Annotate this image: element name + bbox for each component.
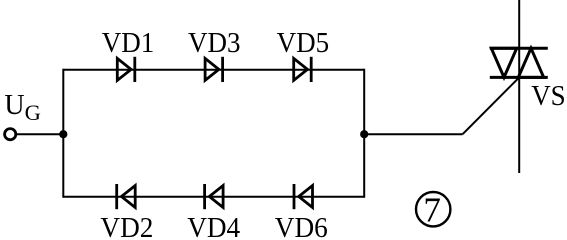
- diode VD3: [205, 57, 223, 82]
- triac VS: [490, 0, 548, 173]
- wire gate diagonal: [463, 77, 520, 134]
- diode VD5: [294, 57, 312, 82]
- terminal UG input: [5, 129, 16, 140]
- wire gate horizontal: [364, 133, 462, 135]
- svg-text:VD1: VD1: [102, 28, 155, 59]
- svg-text:VD4: VD4: [187, 213, 240, 240]
- diode VD2: [117, 184, 136, 209]
- svg-text:7: 7: [423, 191, 441, 230]
- diode VD6: [294, 184, 313, 209]
- svg-text:VD2: VD2: [100, 213, 153, 240]
- svg-text:VD6: VD6: [275, 213, 328, 240]
- wire top bus: [63, 69, 364, 71]
- wire input: [17, 133, 63, 135]
- wire left vertical: [62, 69, 64, 198]
- wire bottom bus: [63, 196, 364, 198]
- node right junction: [360, 130, 368, 138]
- wire right vertical: [363, 69, 365, 198]
- diode VD1: [117, 57, 135, 82]
- diode VD4: [205, 184, 224, 209]
- svg-text:UG: UG: [4, 90, 40, 125]
- svg-text:VD3: VD3: [188, 28, 241, 59]
- figure number circle: [416, 192, 450, 226]
- node left junction: [59, 130, 67, 138]
- svg-text:VS: VS: [531, 81, 566, 112]
- svg-text:VD5: VD5: [277, 28, 330, 59]
